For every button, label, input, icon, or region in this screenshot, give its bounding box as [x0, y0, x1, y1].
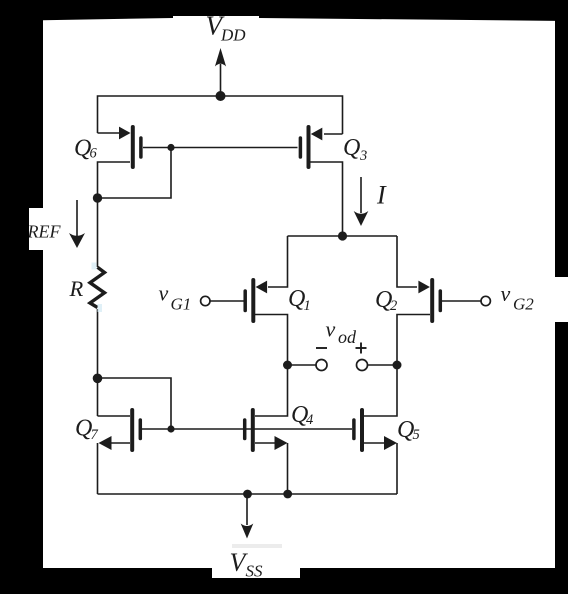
- wire top rail VDD: [98, 96, 343, 134]
- wire tail rail: [288, 235, 398, 237]
- svg-text:R: R: [69, 276, 84, 301]
- junction dot VDD rail: [216, 91, 226, 101]
- wire Q3 drain to tail node: [310, 162, 343, 236]
- wire Q6 source lead: [98, 132, 122, 134]
- svg-text:4: 4: [306, 412, 313, 428]
- border right bar: [555, 0, 568, 277]
- terminal circle vG1: [201, 296, 210, 305]
- arrow line IREF: [76, 200, 78, 236]
- svg-text:Q: Q: [343, 135, 360, 161]
- svg-text:I: I: [376, 181, 387, 210]
- wire vod left: [288, 364, 317, 366]
- terminal circle vod minus: [316, 360, 327, 371]
- artifact smudge near resistor bottom: [98, 304, 103, 312]
- junction dot Q4 source node: [283, 490, 292, 499]
- junction dot Q6 drain node: [93, 193, 102, 202]
- svg-text:G1: G1: [171, 295, 192, 314]
- transistor Q5: [354, 410, 397, 450]
- wire Q5 source to rail: [396, 443, 398, 494]
- wire vod right: [368, 364, 398, 366]
- svg-text:REF: REF: [27, 221, 62, 241]
- wire Q7 source to rail: [97, 443, 99, 494]
- wire node to resistor: [97, 198, 99, 267]
- transistor Q4: [245, 410, 288, 450]
- arrow line VDD: [220, 64, 222, 96]
- wire bottom rail VSS: [98, 493, 398, 495]
- svg-text:5: 5: [413, 427, 420, 443]
- wire Q1 drain to Q4 drain: [255, 315, 288, 417]
- svg-text:2: 2: [390, 298, 397, 314]
- svg-text:3: 3: [359, 148, 367, 164]
- svg-text:v: v: [326, 317, 336, 342]
- svg-text:6: 6: [90, 146, 98, 162]
- wire Q2 gate lead: [442, 300, 481, 302]
- junction dot tail node: [338, 231, 347, 240]
- transistor Q3: [300, 127, 322, 167]
- wire Q5 source lead: [364, 442, 385, 444]
- wire Q2 drain to Q5 drain: [364, 315, 430, 417]
- svg-text:1: 1: [304, 298, 311, 314]
- wire Q6 drain lead: [98, 162, 131, 198]
- resistor R: [90, 267, 105, 307]
- minus sign: [316, 347, 327, 349]
- junction dot VSS tap: [243, 490, 252, 499]
- arrowhead VSS down: [241, 524, 254, 539]
- wire Q4 source to rail: [287, 443, 289, 494]
- terminal circle vG2: [481, 296, 490, 305]
- wire Q4 source lead: [255, 442, 276, 444]
- border bottom bar: [0, 568, 212, 594]
- wire Q7 drain lead: [98, 415, 131, 417]
- svg-text:DD: DD: [220, 26, 246, 45]
- wire Q7 gate connection: [98, 378, 172, 429]
- junction dot vod right node: [393, 361, 402, 370]
- svg-text:SS: SS: [246, 562, 264, 581]
- wire Q7 source lead: [110, 442, 130, 444]
- wire diode connection Q6: [98, 148, 172, 199]
- transistor Q7: [99, 410, 141, 450]
- svg-text:od: od: [338, 327, 357, 347]
- svg-text:7: 7: [91, 427, 99, 443]
- wire Q1 source: [268, 236, 288, 287]
- wire Q6 gate to Q3 gate: [143, 147, 298, 149]
- wire Q2 source: [397, 236, 417, 287]
- junction dot Q7 node: [93, 374, 103, 384]
- wire resistor to Q7 node: [97, 309, 99, 416]
- arrowhead VDD up: [215, 48, 226, 67]
- transistor Q6: [119, 127, 141, 167]
- junction dot bottom gate line: [167, 425, 174, 432]
- terminal circle vod plus: [357, 360, 368, 371]
- artifact smudge above VSS: [232, 544, 282, 548]
- transistor Q1: [245, 280, 267, 321]
- artifact smudge near resistor top: [92, 263, 97, 270]
- wire gate line Q7 Q4 Q5: [142, 428, 352, 430]
- border left bar: [0, 0, 43, 208]
- svg-text:v: v: [159, 281, 169, 306]
- arrow line VSS: [246, 494, 248, 525]
- arrowhead IREF down: [69, 233, 85, 248]
- arrow line I: [360, 177, 362, 213]
- plus sign: [356, 343, 367, 354]
- svg-text:v: v: [501, 281, 511, 306]
- transistor Q2: [418, 280, 440, 321]
- wire Q3 source lead: [324, 133, 343, 135]
- svg-text:G2: G2: [513, 295, 534, 314]
- arrowhead I down: [354, 211, 369, 226]
- junction dot vod left node: [283, 361, 292, 370]
- wire Q1 gate lead: [210, 300, 244, 302]
- junction dot Q6 Q3 gate: [167, 144, 174, 151]
- border top bar: [0, 0, 568, 21]
